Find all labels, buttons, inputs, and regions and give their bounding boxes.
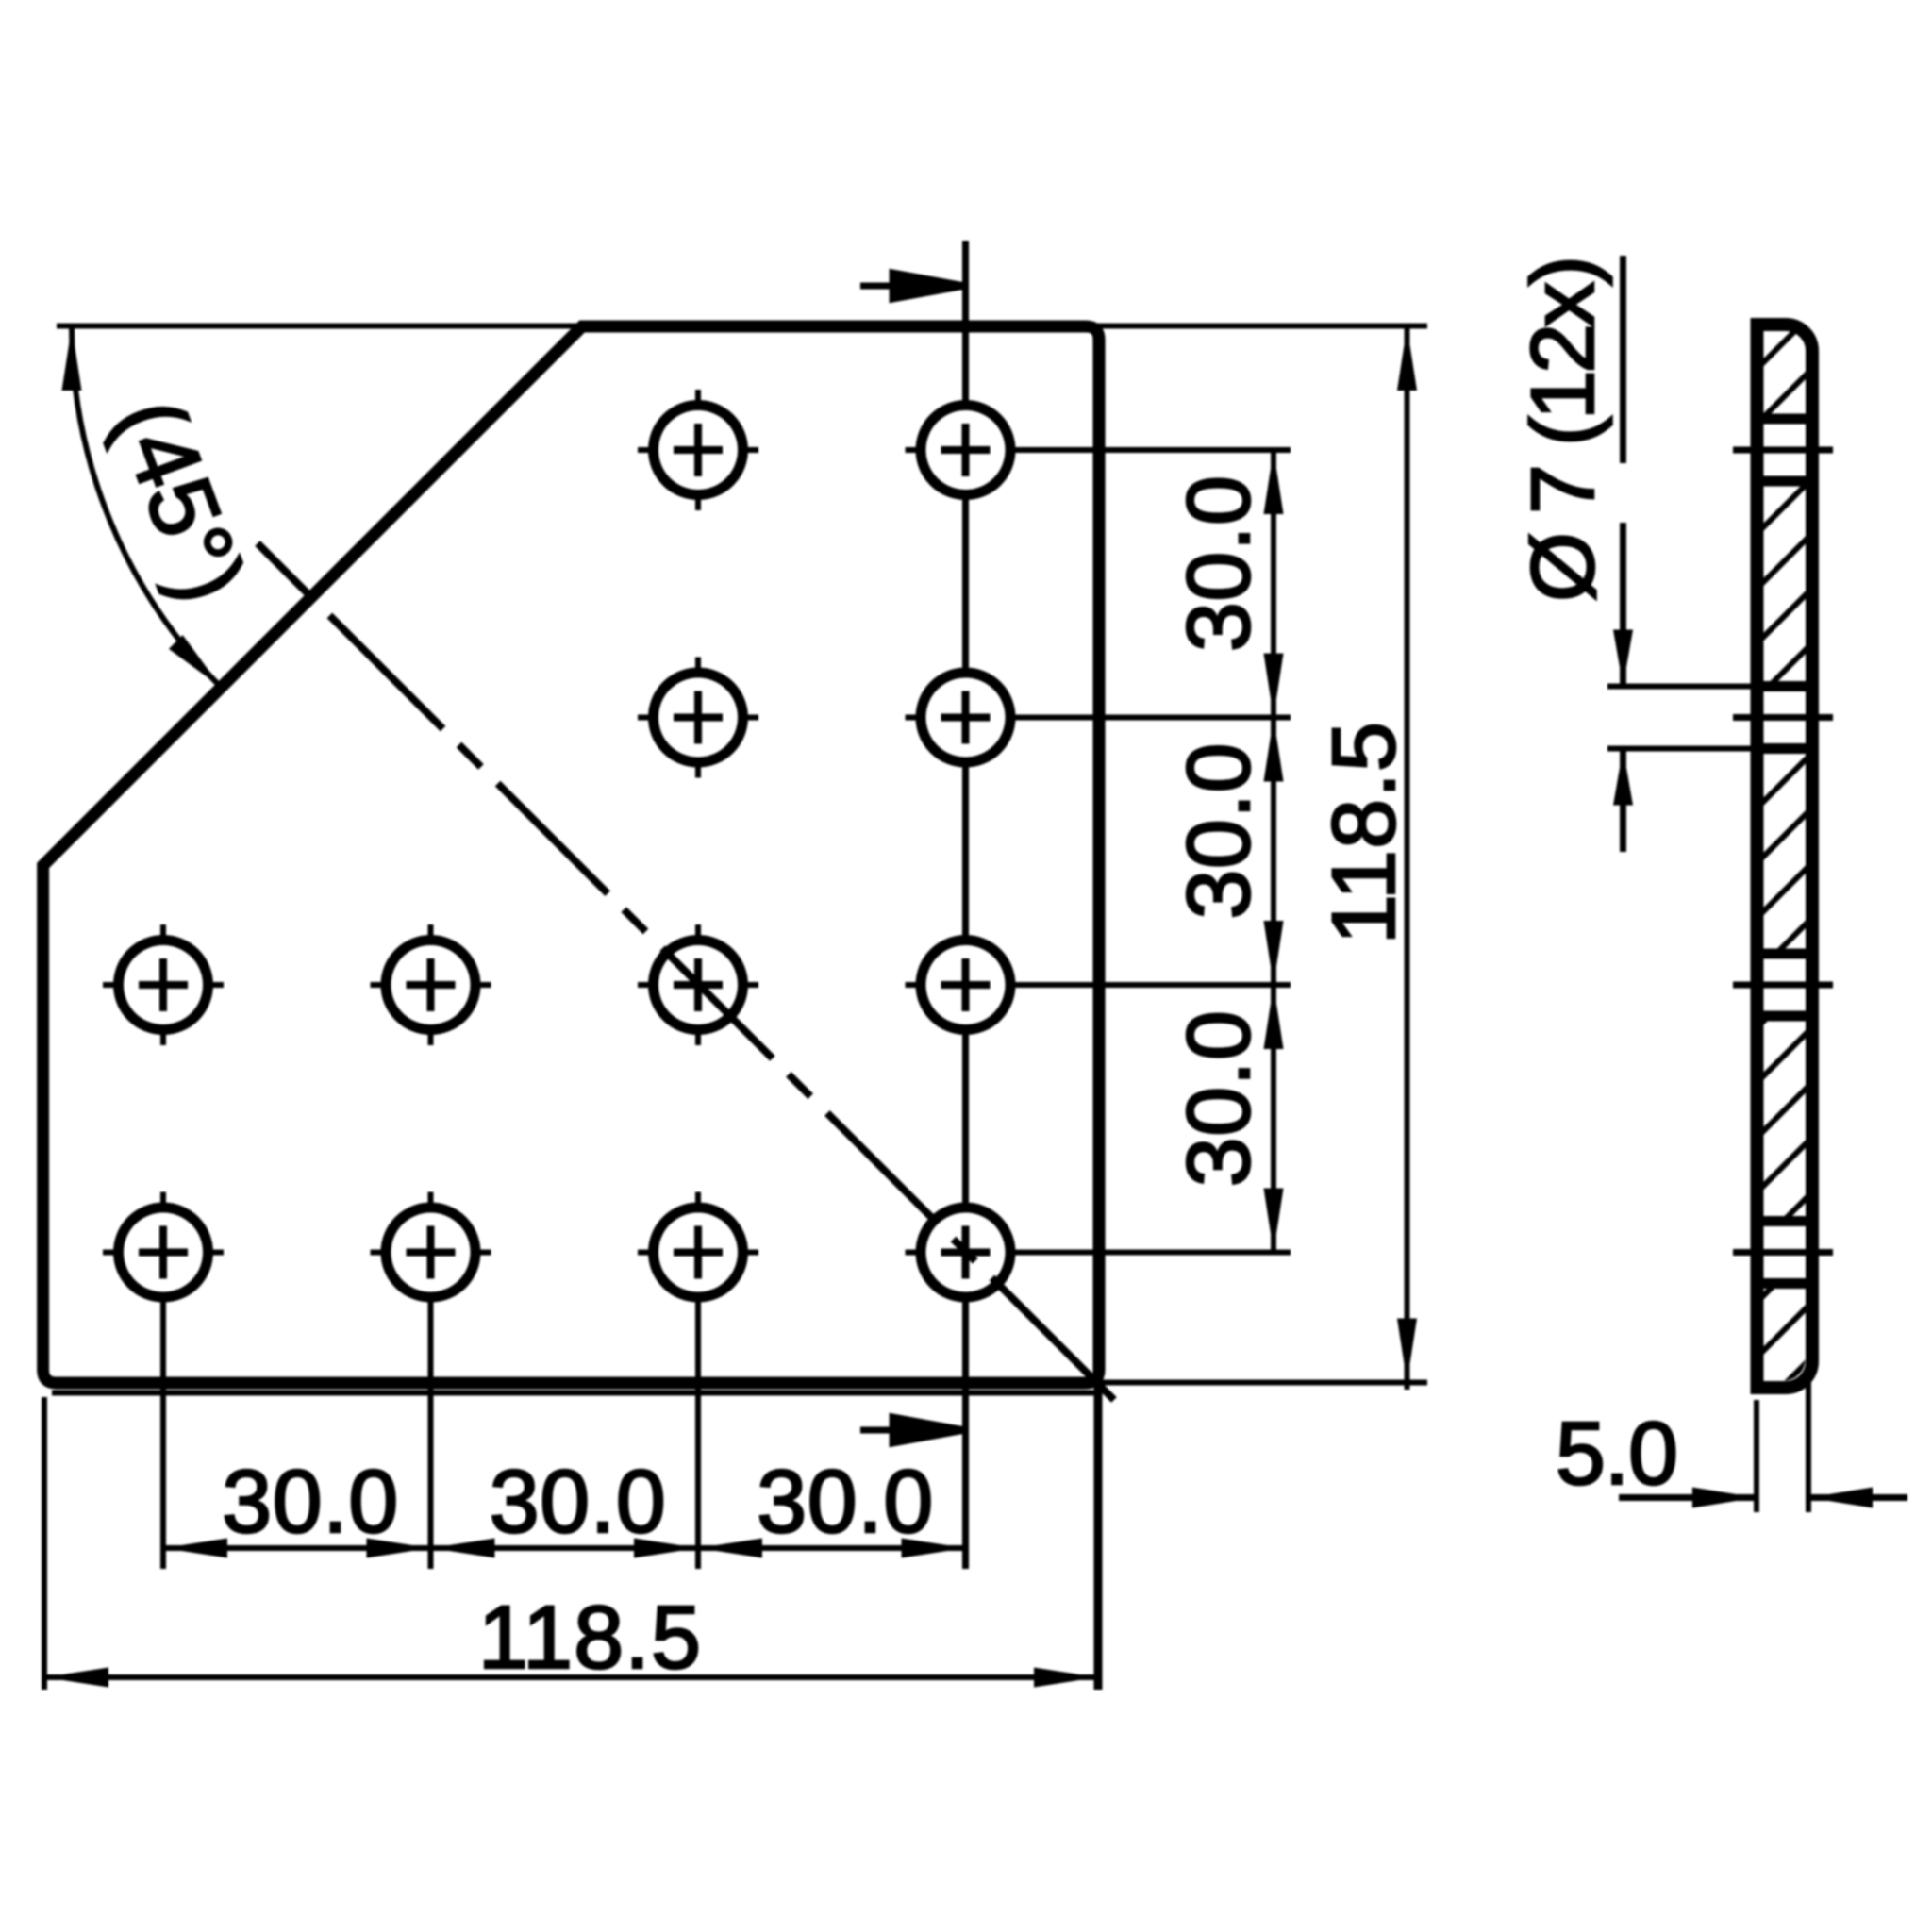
diameter dimension leader [1620,256,1626,463]
section arrows [860,273,965,299]
bottom 30.0 chain [163,1545,966,1551]
hole H11 (Ø7) [638,1192,758,1313]
hole H8 (Ø7) [906,924,1026,1045]
hole H12 (Ø7) [906,1192,1026,1313]
svg-text:30.0: 30.0 [1169,1010,1269,1187]
svg-text:118.5: 118.5 [478,1588,701,1688]
right 30.0 chain dimension line [1271,450,1276,1253]
svg-text:30.0: 30.0 [222,1452,398,1552]
12 holes [103,390,1026,1313]
section line / centerline through 4th hole column [962,241,969,1569]
svg-text:118.5: 118.5 [1314,722,1414,944]
45 degree arc dimension [72,326,221,688]
hole H3 (Ø7) [638,658,758,778]
thin line under bottom edge [52,1391,1098,1396]
svg-text:30.0: 30.0 [490,1452,666,1552]
5.0 thickness dimension [1754,1400,1759,1512]
dash-dot miter centerline [258,543,1114,1400]
right 118.5 dimension [1405,325,1410,1390]
row extension lines to right dim chain [966,447,1291,453]
hole centre ticks in section [1733,450,1833,1253]
svg-text:30.0: 30.0 [757,1452,933,1552]
svg-text:30.0: 30.0 [1169,743,1269,920]
hole H4 (Ø7) [906,658,1026,778]
hole H1 (Ø7) [638,390,758,510]
hole H7 (Ø7) [638,924,758,1045]
plate outline [43,326,1099,1383]
hatch sections [1751,326,1806,419]
hole H5 (Ø7) [103,924,224,1045]
svg-text:5.0: 5.0 [1556,1404,1678,1504]
column extension lines to bottom dim chain [160,1253,166,1570]
hole H2 (Ø7) [906,390,1026,510]
hole H9 (Ø7) [103,1192,224,1313]
bottom 118.5 dimension [42,1397,47,1690]
hole edge lines in section [1751,419,1811,1284]
hole H6 (Ø7) [371,924,491,1045]
thin extension line along top edge [57,324,1427,329]
svg-text:Ø 7 (12x): Ø 7 (12x) [1513,256,1613,602]
hole H10 (Ø7) [371,1192,491,1313]
arrowheads of right chain [1264,450,1284,514]
svg-text:30.0: 30.0 [1169,475,1269,652]
side view outline [1757,325,1813,1388]
thin extension line right of bottom edge [1098,1380,1427,1386]
